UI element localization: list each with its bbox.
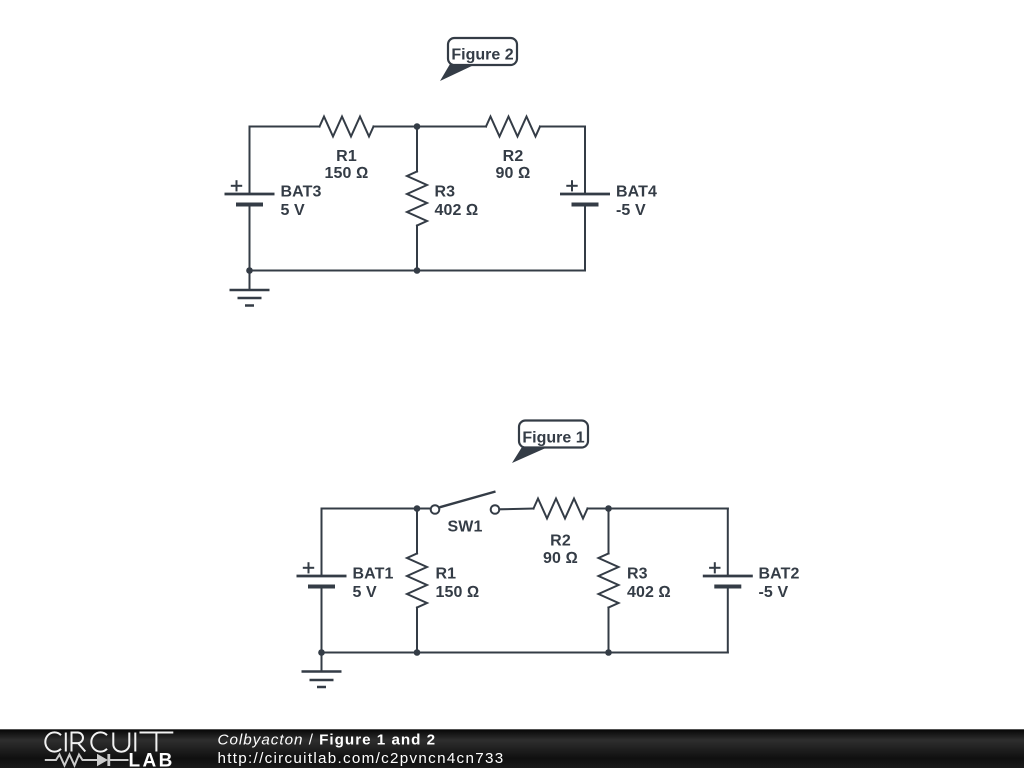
- svg-text:90 Ω: 90 Ω: [543, 550, 578, 567]
- svg-text:R3: R3: [627, 566, 648, 583]
- svg-text:Figure 1: Figure 1: [522, 430, 584, 447]
- node: R3 bottom junction (bottom circuit): [605, 649, 612, 656]
- label R3 402 Ohm: [435, 184, 479, 219]
- wire: top circuit right vertical lower segment: [584, 205, 586, 271]
- wire: top circuit right vertical upper segment: [584, 127, 586, 195]
- label BAT4 -5 V: [616, 184, 657, 219]
- svg-text:150 Ω: 150 Ω: [325, 165, 369, 182]
- resistor R2 (top circuit): [486, 117, 540, 137]
- svg-text:-5 V: -5 V: [616, 202, 646, 219]
- callout Figure 2: [440, 38, 517, 81]
- wire: top circuit left vertical lower segment: [249, 205, 251, 271]
- svg-text:R2: R2: [550, 533, 571, 550]
- resistor R3 (bottom circuit): [599, 554, 619, 608]
- wire: R2 to node C (bottom circuit): [588, 508, 728, 510]
- wire: top circuit top-left horizontal: [250, 126, 320, 128]
- wire: top circuit left vertical upper segment: [249, 127, 251, 195]
- wire: top circuit bottom horizontal: [250, 270, 586, 272]
- svg-text:http://circuitlab.com/c2pvncn4: http://circuitlab.com/c2pvncn4cn733: [218, 750, 505, 767]
- battery BAT1: [297, 562, 347, 586]
- callout Figure 1: [512, 421, 588, 464]
- svg-text:R3: R3: [435, 184, 456, 201]
- node: ground junction (top circuit): [246, 267, 253, 274]
- svg-text:-5 V: -5 V: [759, 584, 789, 601]
- node: R1 bottom junction (bottom circuit): [414, 649, 421, 656]
- wire: R3 top lead (bottom circuit): [608, 509, 610, 554]
- svg-text:LAB: LAB: [129, 750, 175, 768]
- label R2 90 Ohm: [496, 148, 531, 182]
- wire: R2 to top-right corner: [540, 126, 585, 128]
- switch SW1: [431, 492, 500, 514]
- svg-text:R1: R1: [436, 566, 457, 583]
- svg-text:R1: R1: [336, 148, 357, 165]
- svg-text:BAT4: BAT4: [616, 184, 657, 201]
- label BAT1 5 V: [353, 566, 394, 601]
- wire: R1 bottom lead (bottom circuit): [416, 608, 418, 653]
- label BAT2 -5 V: [759, 566, 800, 601]
- label R2 90 Ohm (bottom circuit): [543, 533, 578, 568]
- wire: bottom circuit right vertical upper segment: [727, 509, 729, 577]
- wire: R3 bottom lead (bottom circuit): [608, 608, 610, 653]
- label R1 150 Ohm (bottom circuit): [436, 566, 480, 601]
- svg-text:150 Ω: 150 Ω: [436, 584, 480, 601]
- battery BAT4: [560, 180, 610, 204]
- svg-text:90 Ω: 90 Ω: [496, 165, 531, 182]
- svg-text:5 V: 5 V: [353, 584, 378, 601]
- CircuitLab logo: CIRCUIT wordmark: [45, 732, 173, 751]
- label R3 402 Ohm (bottom circuit): [627, 566, 671, 601]
- wire: bottom circuit right vertical lower segment: [727, 587, 729, 653]
- node: ground junction (bottom circuit): [318, 649, 325, 656]
- label BAT3 5 V: [281, 184, 322, 219]
- CircuitLab logo: resistor-diode glyph: [45, 754, 129, 766]
- wire: R3 bottom lead (top circuit): [416, 226, 418, 271]
- resistor R2 (bottom circuit): [534, 499, 588, 519]
- resistor R1 (top circuit): [320, 117, 374, 137]
- wire: R1 top lead (bottom circuit): [416, 509, 418, 554]
- svg-text:BAT1: BAT1: [353, 566, 394, 583]
- svg-text:BAT2: BAT2: [759, 566, 800, 583]
- node C (junction R2/R3/BAT2): [605, 505, 612, 512]
- wire: R3 top lead (top circuit): [416, 127, 418, 172]
- svg-text:SW1: SW1: [448, 519, 483, 536]
- wire: bottom circuit left vertical upper segment: [321, 509, 323, 577]
- ground (top circuit): [230, 271, 270, 306]
- wire: node A to R2: [417, 126, 486, 128]
- resistor R1 (bottom circuit): [407, 554, 427, 608]
- battery BAT3: [225, 180, 275, 204]
- wire: bottom circuit top-left horizontal: [322, 508, 431, 510]
- wire: R1 to node A: [374, 126, 418, 128]
- wire: bottom circuit bottom horizontal: [322, 652, 728, 654]
- node A (junction R1/R2/R3): [414, 123, 421, 130]
- resistor R3 (top circuit): [407, 172, 427, 226]
- svg-text:5 V: 5 V: [281, 202, 306, 219]
- wire: SW1 to R2 (bottom circuit): [499, 508, 533, 511]
- wire: bottom circuit left vertical lower segment: [321, 587, 323, 653]
- label R1 150 Ohm: [325, 148, 369, 182]
- svg-text:402 Ω: 402 Ω: [435, 202, 479, 219]
- node: R3 bottom junction (top circuit): [414, 267, 421, 274]
- battery BAT2: [703, 562, 753, 586]
- svg-text:R2: R2: [503, 148, 524, 165]
- ground (bottom circuit): [302, 653, 342, 688]
- svg-text:402 Ω: 402 Ω: [627, 584, 671, 601]
- svg-text:Figure 2: Figure 2: [451, 47, 513, 64]
- footer bar: [0, 729, 1024, 768]
- svg-text:Colbyacton / Figure 1 and 2: Colbyacton / Figure 1 and 2: [218, 732, 437, 749]
- node B (junction BAT1/R1/SW1): [414, 505, 421, 512]
- svg-text:BAT3: BAT3: [281, 184, 322, 201]
